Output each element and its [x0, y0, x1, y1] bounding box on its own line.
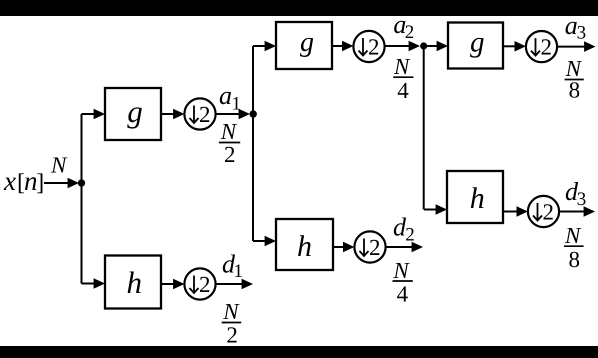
svg-text:2: 2	[199, 272, 211, 297]
arrowhead into node a1	[239, 109, 250, 120]
wire to filter g2	[253, 45, 267, 47]
filter box g2	[276, 22, 332, 69]
downsampler circle 3d (down-arrow 2)	[528, 196, 559, 227]
svg-text:3: 3	[577, 189, 587, 210]
downsampler circle 1a (down-arrow 2)	[184, 98, 215, 129]
filter box g3	[448, 23, 503, 69]
label a1	[219, 81, 241, 115]
label d3	[565, 177, 586, 210]
svg-text:2: 2	[199, 102, 211, 127]
svg-text:8: 8	[569, 247, 581, 272]
svg-text:2: 2	[369, 235, 381, 260]
wire split vertical level 1	[81, 114, 83, 284]
svg-text:N: N	[392, 258, 410, 283]
label d1	[222, 249, 243, 282]
node a2 junction dot	[420, 42, 427, 49]
wire downsampler 3a output a3	[557, 46, 586, 48]
arrowhead into node A	[68, 178, 79, 189]
arrowhead into h3	[436, 204, 447, 215]
arrowhead into g1	[94, 109, 105, 120]
arrowhead into downsampler 2d	[343, 242, 354, 253]
svg-text:g: g	[470, 27, 485, 59]
filter box g1	[105, 88, 161, 140]
wire node a2 to filter g3	[427, 45, 439, 47]
svg-text:2: 2	[368, 35, 380, 60]
svg-text:x: x	[3, 166, 16, 196]
label a2	[393, 10, 414, 43]
wire downsampler 2d output d2	[386, 246, 414, 248]
wire h2 to downsampler	[333, 246, 346, 248]
wire downsampler 2a to node a2	[385, 45, 411, 47]
arrowhead into g2	[265, 41, 276, 52]
svg-text:h: h	[470, 182, 485, 215]
wire split vertical level 3	[423, 46, 425, 210]
wire to filter h1	[82, 283, 97, 285]
label N/8 (after a3)	[565, 56, 584, 103]
arrowhead output d2	[412, 242, 423, 253]
wire h1 to downsampler	[161, 283, 176, 285]
svg-text:N: N	[220, 119, 238, 144]
svg-text:N: N	[393, 54, 411, 79]
svg-text:2: 2	[541, 35, 553, 60]
arrowhead into downsampler 3d	[517, 206, 528, 217]
downsampler circle 3a (down-arrow 2)	[526, 31, 557, 62]
arrowhead into downsampler 2a	[342, 41, 353, 52]
label N/2 (after a1)	[219, 119, 240, 167]
svg-text:1: 1	[234, 261, 244, 282]
arrowhead into h1	[94, 278, 105, 289]
filter box h3	[447, 171, 503, 223]
top black bar	[0, 0, 598, 16]
arrowhead output d3	[584, 206, 595, 217]
svg-text:3: 3	[577, 23, 587, 44]
arrowhead into downsampler 3a	[515, 41, 526, 52]
wire g2 to downsampler	[332, 45, 345, 47]
svg-text:N: N	[564, 223, 582, 248]
svg-text:a: a	[219, 81, 232, 110]
svg-text:2: 2	[405, 225, 415, 246]
wire h3 to downsampler	[503, 211, 519, 213]
svg-text:h: h	[297, 230, 312, 263]
label N/4 (after a2)	[393, 54, 414, 103]
svg-text:2: 2	[224, 142, 236, 167]
downsampler circle 2a (down-arrow 2)	[353, 31, 384, 62]
svg-text:2: 2	[226, 322, 238, 347]
arrowhead into downsampler 1a	[173, 109, 184, 120]
svg-text:]: ]	[36, 170, 44, 196]
wire to filter g1	[82, 113, 97, 115]
bottom black bar	[0, 346, 598, 358]
wire x[n] to node A	[44, 182, 70, 184]
svg-text:2: 2	[405, 22, 415, 43]
downsampler circle 1d (down-arrow 2)	[184, 268, 215, 299]
svg-text:4: 4	[397, 78, 409, 103]
arrowhead output a3	[584, 41, 595, 52]
arrowhead into node a2	[409, 41, 420, 52]
wire downsampler 1d output d1	[216, 283, 244, 285]
svg-text:N: N	[50, 153, 68, 178]
svg-text:2: 2	[543, 200, 555, 225]
svg-text:4: 4	[397, 282, 409, 307]
node A junction dot	[78, 179, 85, 186]
arrowhead into g3	[437, 41, 448, 52]
arrowhead into downsampler 1d	[173, 279, 184, 290]
label d2	[393, 213, 415, 246]
node a1 junction dot	[250, 110, 257, 117]
svg-text:g: g	[127, 94, 143, 129]
wire downsampler 1a to node a1	[216, 113, 241, 115]
label N/2 (after d1)	[222, 299, 242, 347]
arrowhead output d1	[242, 279, 253, 290]
svg-text:g: g	[300, 27, 314, 58]
label N/4 (after d2)	[392, 258, 412, 307]
wire to filter h2	[253, 240, 267, 242]
label a3	[565, 11, 586, 44]
label N/8 (after d3)	[564, 223, 584, 272]
filter box h1	[105, 256, 161, 309]
downsampler circle 2d (down-arrow 2)	[354, 231, 385, 262]
wire split vertical level 2	[252, 46, 254, 241]
arrowhead into h2	[265, 236, 276, 247]
svg-text:8: 8	[569, 78, 581, 103]
filter box h2	[276, 219, 333, 270]
svg-text:1: 1	[232, 94, 242, 115]
input label x[n]	[3, 166, 44, 196]
wire to filter h3	[424, 209, 438, 211]
wire g3 to downsampler	[503, 45, 517, 47]
wire g1 to downsampler	[161, 113, 176, 115]
svg-text:h: h	[127, 265, 143, 300]
wire downsampler 3d output d3	[559, 211, 586, 213]
svg-text:N: N	[222, 299, 240, 324]
